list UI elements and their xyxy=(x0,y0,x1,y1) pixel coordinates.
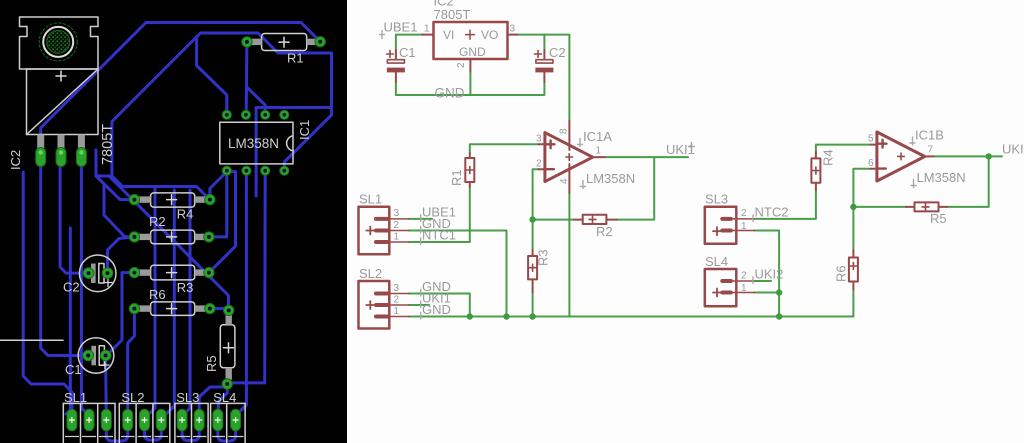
svg-text:GND: GND xyxy=(422,302,451,317)
svg-text:R3: R3 xyxy=(536,249,551,266)
svg-text:2: 2 xyxy=(536,158,542,169)
svg-text:3: 3 xyxy=(510,24,516,35)
svg-text:R6: R6 xyxy=(149,287,166,302)
svg-text:VI: VI xyxy=(443,28,454,42)
svg-text:R6: R6 xyxy=(834,265,849,282)
svg-text:4: 4 xyxy=(559,178,570,184)
svg-text:3: 3 xyxy=(394,208,400,219)
svg-text:3: 3 xyxy=(394,283,400,294)
svg-text:NTC2: NTC2 xyxy=(755,204,789,219)
svg-text:C1: C1 xyxy=(399,45,416,60)
svg-text:LM358N: LM358N xyxy=(917,170,966,185)
svg-text:R4: R4 xyxy=(821,149,836,166)
svg-text:C2: C2 xyxy=(63,280,80,295)
svg-text:2: 2 xyxy=(456,62,467,68)
svg-text:IC1A: IC1A xyxy=(583,129,612,144)
svg-text:2: 2 xyxy=(394,294,400,305)
svg-text:7805T: 7805T xyxy=(100,124,116,165)
svg-text:SL1: SL1 xyxy=(64,390,87,405)
svg-text:SL2: SL2 xyxy=(359,266,382,281)
svg-text:GND: GND xyxy=(435,85,465,100)
svg-text:R3: R3 xyxy=(177,280,194,295)
svg-text:IC1B: IC1B xyxy=(915,128,944,143)
svg-text:2: 2 xyxy=(394,220,400,231)
svg-text:UBE1: UBE1 xyxy=(384,20,418,35)
svg-text:1: 1 xyxy=(741,283,747,294)
svg-text:SL4: SL4 xyxy=(705,254,728,269)
svg-text:5: 5 xyxy=(868,134,874,145)
svg-text:1: 1 xyxy=(424,24,430,35)
svg-text:SL3: SL3 xyxy=(705,192,728,207)
svg-text:UKI1: UKI1 xyxy=(666,142,695,157)
svg-text:1: 1 xyxy=(394,306,400,317)
svg-text:UKI2: UKI2 xyxy=(1002,142,1024,157)
svg-text:IC1: IC1 xyxy=(297,120,312,140)
svg-text:LM358N: LM358N xyxy=(586,171,635,186)
svg-text:SL3: SL3 xyxy=(176,390,199,405)
svg-text:C1: C1 xyxy=(65,362,82,377)
svg-text:NTC1: NTC1 xyxy=(422,228,456,243)
svg-text:R5: R5 xyxy=(204,355,219,372)
svg-text:GND: GND xyxy=(459,45,486,59)
svg-text:VO: VO xyxy=(481,28,498,42)
svg-text:1: 1 xyxy=(596,146,602,157)
svg-text:R2: R2 xyxy=(149,214,166,229)
svg-text:3: 3 xyxy=(536,134,542,145)
svg-text:1: 1 xyxy=(741,221,747,232)
svg-text:UKI2: UKI2 xyxy=(755,267,784,282)
svg-text:2: 2 xyxy=(741,208,747,219)
svg-text:SL2: SL2 xyxy=(121,390,144,405)
svg-text:R1: R1 xyxy=(449,169,464,186)
svg-text:7: 7 xyxy=(928,145,934,156)
svg-text:R4: R4 xyxy=(177,206,194,221)
svg-text:1: 1 xyxy=(394,231,400,242)
svg-text:R5: R5 xyxy=(930,211,947,226)
svg-text:SL1: SL1 xyxy=(359,192,382,207)
svg-text:7805T: 7805T xyxy=(434,7,471,22)
svg-text:IC2: IC2 xyxy=(8,150,23,170)
svg-text:8: 8 xyxy=(559,128,570,134)
svg-text:LM358N: LM358N xyxy=(228,136,279,151)
svg-text:SL4: SL4 xyxy=(213,390,236,405)
svg-text:R2: R2 xyxy=(596,224,613,239)
svg-text:2: 2 xyxy=(741,270,747,281)
svg-text:6: 6 xyxy=(868,158,874,169)
svg-text:R1: R1 xyxy=(287,51,304,66)
svg-text:C2: C2 xyxy=(549,45,566,60)
